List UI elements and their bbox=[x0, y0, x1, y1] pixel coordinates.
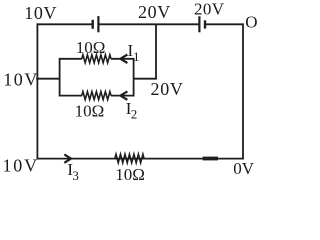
battery B1 short plate (negative) bbox=[91, 20, 93, 29]
wire thick segment on bottom wire near right bbox=[203, 157, 218, 161]
current arrow I2 on bottom branch pointing left bbox=[120, 91, 127, 99]
svg-text:20V: 20V bbox=[138, 2, 171, 22]
svg-text:O: O bbox=[245, 13, 257, 32]
battery B1 long plate (positive) bbox=[97, 16, 99, 32]
svg-text:10Ω: 10Ω bbox=[115, 165, 145, 184]
wire top-left horizontal segment bbox=[37, 23, 92, 25]
battery B2 long plate (positive) bbox=[198, 16, 200, 32]
svg-text:2: 2 bbox=[131, 107, 138, 122]
wire right vertical bbox=[242, 23, 244, 158]
resistor R1 10ohm top branch zigzag bbox=[82, 55, 111, 63]
svg-text:10Ω: 10Ω bbox=[76, 38, 106, 57]
svg-text:10Ω: 10Ω bbox=[75, 101, 105, 120]
svg-text:10V: 10V bbox=[24, 3, 57, 23]
svg-text:3: 3 bbox=[72, 168, 79, 183]
svg-text:20V: 20V bbox=[151, 79, 184, 99]
wire top branch right segment bbox=[111, 58, 134, 60]
current arrow I3 on bottom wire pointing right bbox=[64, 154, 71, 162]
wire bottom horizontal bbox=[37, 158, 244, 160]
svg-text:20V: 20V bbox=[194, 0, 225, 19]
wire middle branch vertical from top wire to 20V node bbox=[155, 24, 157, 78]
wire bottom branch left segment bbox=[60, 95, 82, 97]
wire top middle segment bbox=[98, 23, 199, 25]
wire bottom branch right segment bbox=[111, 95, 134, 97]
wire stub from left vertical to parallel block left bar bbox=[36, 78, 60, 80]
svg-text:0V: 0V bbox=[233, 159, 255, 178]
wire stub from 20V node to parallel block right bar bbox=[134, 78, 157, 80]
wire left vertical bbox=[36, 23, 38, 158]
wire parallel block left bar bbox=[59, 58, 61, 97]
wire top branch left segment bbox=[60, 58, 82, 60]
current arrow I1 on top branch pointing left bbox=[120, 55, 127, 63]
resistor R3 10ohm bottom wire zigzag bbox=[115, 154, 144, 163]
resistor R2 10ohm bottom branch zigzag bbox=[82, 92, 111, 100]
svg-text:10V: 10V bbox=[3, 70, 39, 90]
battery B2 short plate (negative) bbox=[204, 20, 206, 28]
svg-text:10V: 10V bbox=[3, 155, 39, 175]
svg-text:1: 1 bbox=[133, 49, 140, 64]
wire parallel block right bar bbox=[133, 58, 135, 97]
wire top-right segment to node O bbox=[205, 23, 243, 25]
